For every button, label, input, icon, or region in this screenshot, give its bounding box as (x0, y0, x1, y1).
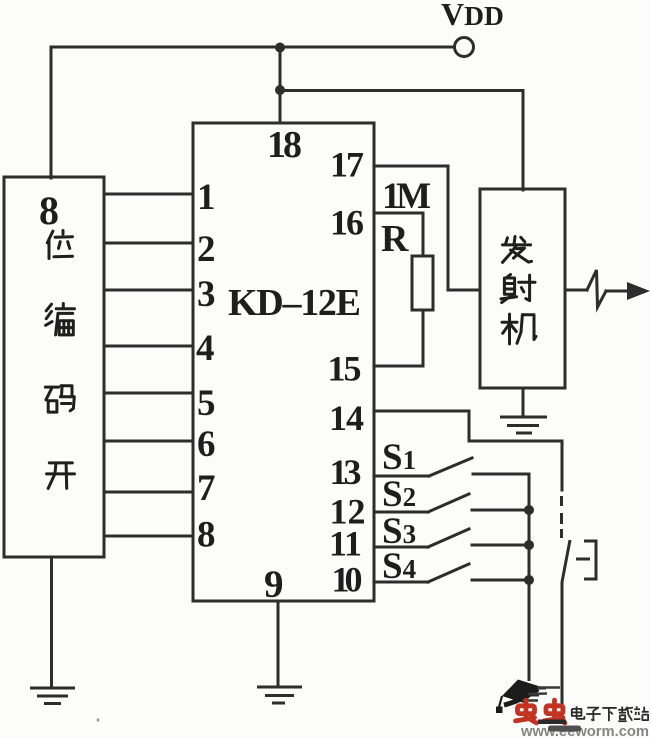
ground transmitter (500, 417, 547, 433)
ground encoder box (30, 688, 75, 704)
wire switch bus to ground (528, 474, 531, 681)
node junction VDD/pin18 (275, 43, 285, 53)
resistor R 1M (412, 256, 433, 310)
IC U1 KD-12E body (193, 123, 374, 601)
svg-text:9: 9 (264, 563, 284, 606)
antenna zigzag (587, 270, 606, 307)
wire pin 4 (104, 345, 193, 348)
antenna arrow head (627, 282, 650, 300)
watermark corner bar (538, 720, 566, 725)
svg-text:3: 3 (197, 274, 216, 315)
terminal VDD (455, 38, 474, 57)
svg-text:11: 11 (329, 524, 362, 564)
node junction S3 bus (524, 540, 534, 550)
svg-text:16: 16 (330, 203, 364, 243)
svg-text:R: R (381, 218, 409, 260)
wire pin 5 (104, 392, 193, 395)
switch S1 (374, 458, 529, 476)
encoder switch box S (8位编码开) (4, 177, 104, 557)
svg-text:5: 5 (197, 383, 216, 424)
wire pin 7 (104, 491, 193, 494)
svg-text:14: 14 (329, 398, 364, 438)
wire encoder box ground (50, 557, 53, 687)
svg-text:8: 8 (197, 515, 216, 556)
wire pin 3 (104, 289, 193, 292)
wire antenna feed (565, 289, 587, 292)
svg-text:6: 6 (197, 424, 216, 465)
stray speck (97, 719, 100, 722)
svg-text:www.eeworm.com: www.eeworm.com (520, 723, 649, 738)
svg-text:2: 2 (197, 229, 216, 270)
switch S3 (374, 529, 529, 547)
push button SB contact arm (562, 540, 570, 582)
label 位 (47, 231, 72, 259)
wire pin 14 to push button (374, 411, 562, 490)
watermark logo cap (496, 680, 560, 714)
switch S2 (374, 494, 529, 512)
svg-text:17: 17 (330, 145, 364, 185)
label 射 (501, 275, 535, 303)
svg-text:VDD: VDD (441, 0, 504, 32)
svg-text:1M: 1M (382, 176, 431, 217)
wire left drop to encoder box (50, 47, 53, 178)
wire pin 6 (104, 440, 193, 443)
transmitter box (发射机) (480, 189, 565, 388)
watermark 电子下载站 (572, 706, 649, 721)
label 机 (502, 314, 536, 344)
svg-text:18: 18 (267, 124, 302, 166)
switch S4 (374, 564, 529, 582)
watermark dark underline blob (548, 726, 581, 732)
wire transmitter ground (522, 388, 525, 417)
svg-text:15: 15 (328, 349, 362, 389)
wire pin 16 to resistor (374, 213, 423, 256)
label 编 (46, 304, 75, 335)
svg-text:8: 8 (39, 188, 59, 233)
push button SB cap (576, 541, 596, 579)
svg-text:KD–12E: KD–12E (228, 282, 361, 324)
svg-text:4: 4 (196, 328, 215, 369)
wire antenna arrow lead (606, 290, 628, 293)
push button SB dashed terminal (560, 496, 563, 538)
wire resistor to pin 15 (374, 310, 423, 366)
wire IC pin 9 ground (277, 601, 280, 687)
svg-text:7: 7 (197, 468, 216, 509)
node junction S4 bus (524, 575, 534, 585)
watermark 虫虫 red (516, 700, 566, 723)
node junction transmitter branch (275, 85, 285, 95)
ground IC pin 9 (257, 687, 302, 703)
wire push button to ground rail (561, 582, 564, 724)
wire pin 2 (104, 242, 193, 245)
svg-text:1: 1 (197, 177, 216, 218)
label 码 (45, 386, 74, 412)
label 发 (503, 237, 532, 263)
svg-text:10: 10 (332, 560, 363, 600)
svg-text:13: 13 (330, 452, 362, 492)
wire VDD top rail (51, 46, 454, 49)
wire pin 1 (104, 193, 193, 196)
wire pin 17 to transmitter (374, 166, 480, 290)
node junction S2 bus (524, 505, 534, 515)
wire VDD drop to pin 18 (279, 47, 282, 123)
label 开 (47, 463, 75, 489)
wire pin 8 (104, 535, 193, 538)
wire VDD branch to transmitter (280, 91, 523, 191)
ground switch bus (hidden under watermark logo) (512, 688, 546, 695)
